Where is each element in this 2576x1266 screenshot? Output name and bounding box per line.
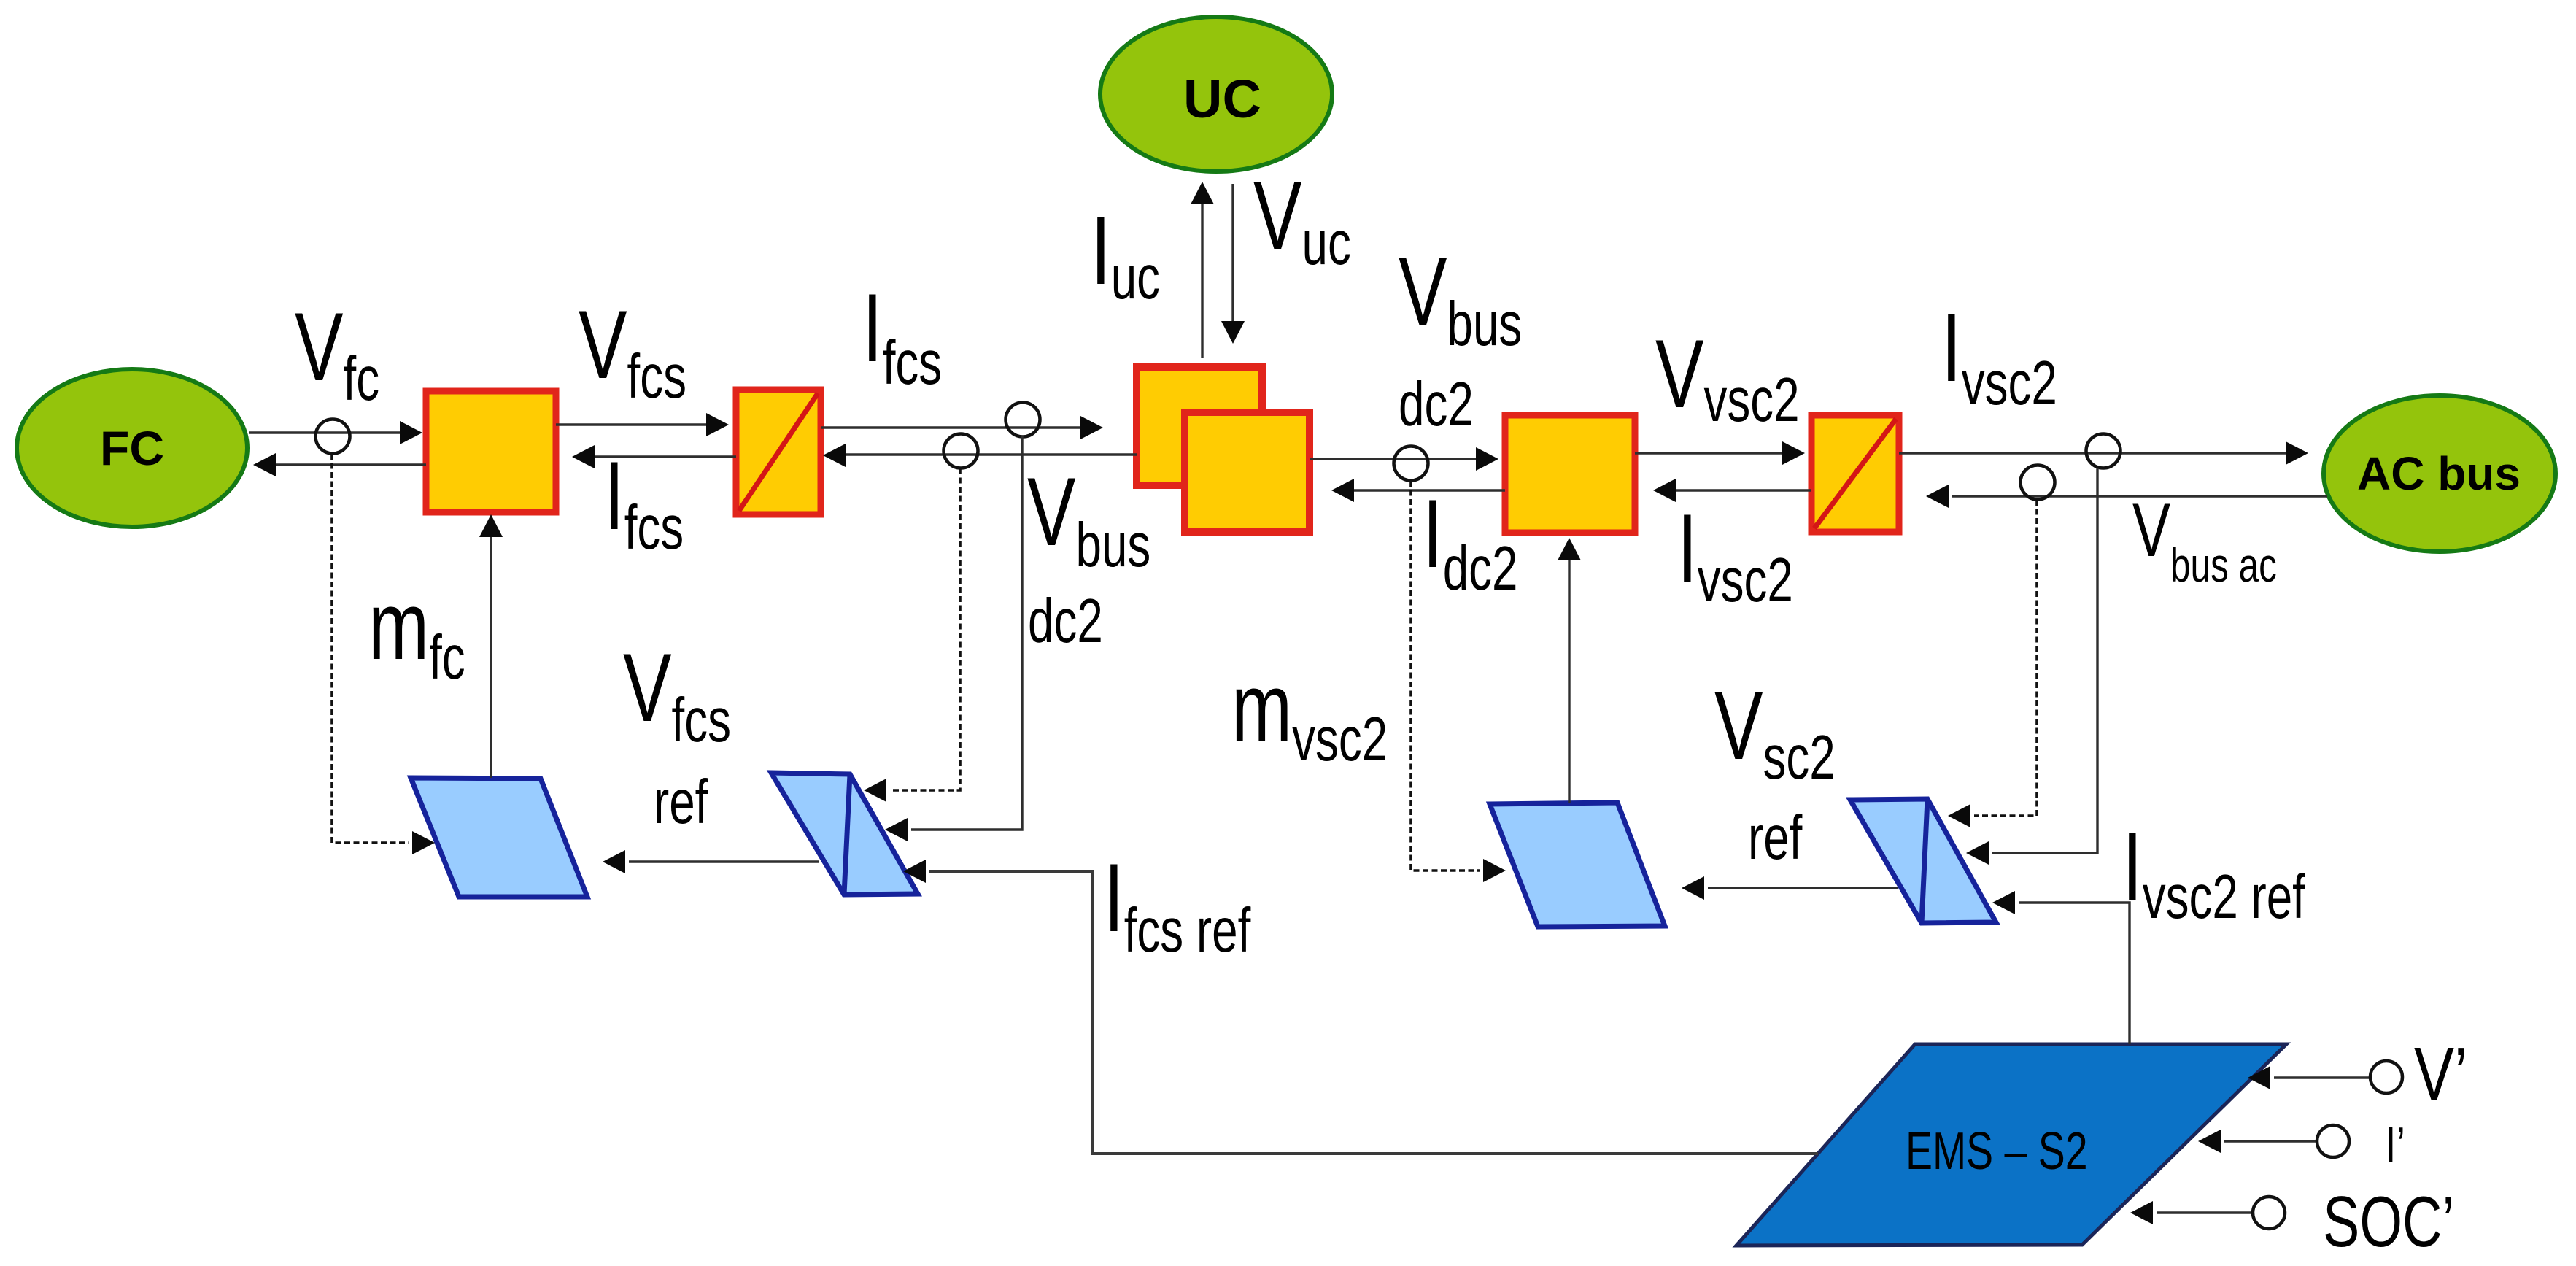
filter F1 block with diagonal	[736, 390, 821, 514]
wire VSC2 to F2 (V_vsc2)	[1635, 441, 1805, 465]
controller P3 (m_vsc2) parallelogram	[1490, 803, 1665, 927]
label dc2 right	[1399, 369, 1474, 439]
label I_vsc2 top	[1941, 293, 2057, 417]
wire F2 to VSC2 (I_vsc2 return)	[1653, 479, 1811, 502]
input V' with circle	[2248, 1061, 2402, 1093]
label V_bus right	[1399, 237, 1522, 358]
svg-text:AC bus: AC bus	[2357, 447, 2521, 500]
label I_fcs ref	[1104, 844, 1250, 965]
wire dashed from circle B down to P2	[864, 468, 960, 802]
label V_fcs ref	[623, 633, 731, 754]
label ref under V_fcs	[654, 767, 708, 836]
node V_fc measurement circle	[316, 420, 350, 454]
svg-text:dc2: dc2	[1028, 586, 1103, 655]
wire V_uc down arrow from UC	[1221, 184, 1245, 344]
svg-text:FC: FC	[100, 421, 164, 475]
converter VSC2 block	[1505, 415, 1635, 533]
node circle A on I_fcs wire	[1006, 403, 1040, 437]
svg-text:dc2: dc2	[1399, 369, 1474, 439]
svg-text:EMS – S2: EMS – S2	[1906, 1122, 2088, 1181]
wire dashed V_fc down to P1	[332, 454, 435, 854]
label I'	[2385, 1117, 2405, 1173]
label m_fc	[368, 571, 465, 692]
label I_vsc2 ref	[2122, 812, 2305, 931]
node circle D on I_vsc2 wire	[2086, 434, 2121, 468]
wire I_vsc2 ref from EMS up to P4	[1992, 891, 2130, 1044]
label I_vsc2 bottom	[1677, 494, 1793, 614]
label V_fcs	[579, 290, 686, 411]
wire F1 to UC converter (I_fcs)	[821, 416, 1103, 439]
wire UC converter to F1 (V_bus dc2 return)	[823, 444, 1137, 467]
label V_uc	[1253, 161, 1351, 277]
converter CONV1 block	[426, 391, 556, 512]
wire UC converter to VSC2 (V_bus dc2)	[1310, 447, 1498, 471]
label V_vsc2	[1655, 320, 1800, 434]
svg-text:V’: V’	[2414, 1032, 2467, 1116]
wire VSC2 to UC converter (I_dc2 return)	[1331, 479, 1505, 502]
wire solid V_bus down from circle A to P2	[885, 436, 1022, 841]
wire dashed from circle E down to P4	[1948, 500, 2037, 827]
source UC ellipse	[1100, 17, 1332, 171]
label V'	[2414, 1032, 2467, 1116]
label SOC'	[2323, 1181, 2454, 1262]
svg-text:SOC’: SOC’	[2323, 1181, 2454, 1262]
wire F2 to AC bus (I_vsc2)	[1899, 441, 2308, 465]
label m_vsc2	[1231, 653, 1388, 773]
label dc2 left	[1028, 586, 1103, 655]
wire CONV1 to F1 (V_fcs)	[556, 413, 729, 436]
wire F1 to CONV1 (I_fcs return)	[572, 445, 736, 468]
node circle E on return wire	[2021, 466, 2055, 500]
UC converter back square	[1137, 367, 1262, 485]
input SOC' with circle	[2130, 1197, 2285, 1229]
wire dashed from circle C down to P3	[1411, 481, 1506, 882]
AC bus ellipse	[2324, 395, 2556, 552]
UC converter front square	[1185, 412, 1310, 532]
input I' with circle	[2198, 1125, 2349, 1157]
controller P2 (V_fcs ref) parallelogram with inner line	[771, 773, 918, 895]
svg-text:ref: ref	[1748, 803, 1802, 872]
label V_bus ac	[2132, 488, 2277, 592]
label I_fcs bottom	[604, 441, 684, 562]
controller P4 (V_sc2 ref) parallelogram with inner line	[1850, 799, 1996, 923]
label I_fcs top	[862, 274, 942, 397]
wire I_fcs ref from EMS to P2	[903, 860, 1818, 1154]
controller P1 (m_fc) parallelogram	[411, 778, 587, 897]
wire P2 to P1 (V_fcs ref)	[603, 850, 819, 873]
label I_uc	[1091, 196, 1160, 312]
wire m_fc from P1 up to CONV1	[479, 514, 503, 778]
label V_fc	[295, 293, 379, 413]
wire CONV1 to FC (return)	[253, 453, 426, 476]
wire FC to CONV1 (V_fc)	[249, 421, 422, 444]
wire I_uc up arrow to UC	[1191, 182, 1214, 358]
EMS-S2 block	[1736, 1044, 2286, 1246]
wire P4 to P3 (V_sc2 ref)	[1682, 876, 1898, 900]
label V_sc2 ref	[1714, 671, 1836, 792]
filter F2 block with diagonal	[1811, 415, 1899, 532]
node circle B on return wire	[944, 434, 978, 468]
label I_dc2	[1423, 479, 1518, 603]
source FC ellipse	[17, 369, 247, 527]
wire solid from circle D down to P4	[1966, 468, 2097, 865]
svg-text:UC: UC	[1183, 69, 1261, 129]
label ref under V_sc2	[1748, 803, 1802, 872]
label V_bus left	[1027, 458, 1150, 579]
node circle C on V_bus dc2 wire	[1394, 447, 1428, 481]
svg-text:I’: I’	[2385, 1117, 2405, 1173]
wire m_vsc2 from P3 up to VSC2	[1558, 538, 1581, 803]
svg-text:ref: ref	[654, 767, 708, 836]
wire AC bus to F2 (V_bus ac return)	[1926, 485, 2327, 508]
